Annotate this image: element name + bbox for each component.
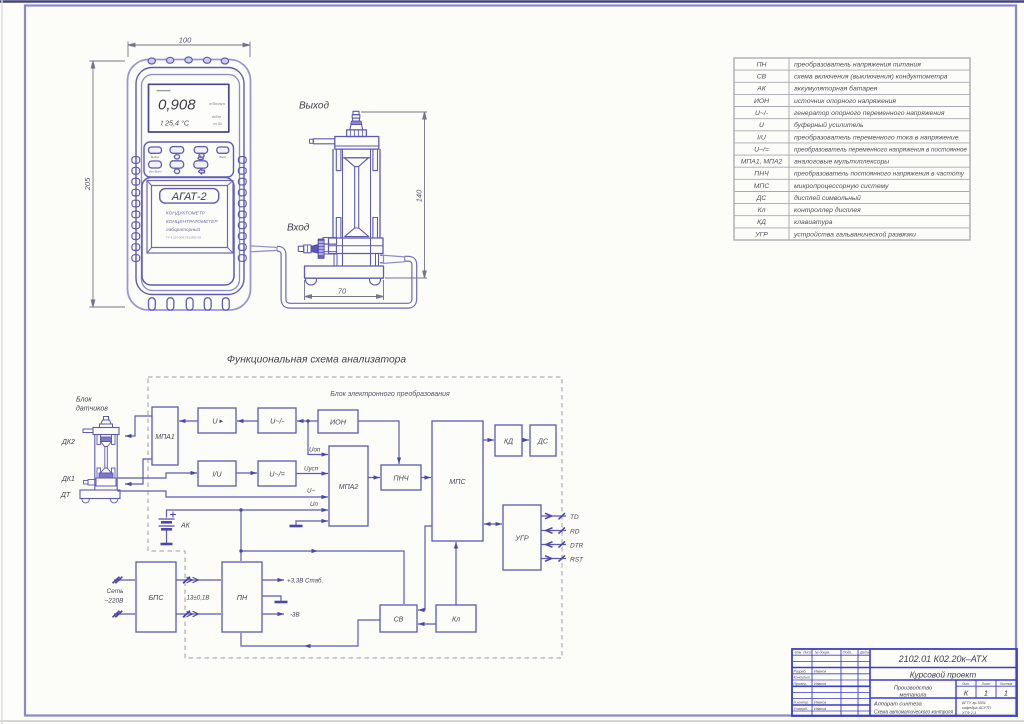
wire branch to СВ top xyxy=(241,551,404,604)
upper funnel xyxy=(343,157,371,159)
keypad buttons xyxy=(149,147,229,175)
block ДС xyxy=(530,425,556,456)
svg-text:УГР: УГР xyxy=(514,534,529,543)
svg-text:БПС: БПС xyxy=(148,593,164,602)
svg-text:+3,3В Стаб.: +3,3В Стаб. xyxy=(287,578,323,585)
wire МПС to КД xyxy=(483,439,494,441)
svg-text:ИОН: ИОН xyxy=(330,418,347,427)
svg-text:Н.контр.: Н.контр. xyxy=(794,701,809,705)
svg-text:Дата: Дата xyxy=(859,651,869,655)
top collar xyxy=(347,130,367,137)
svg-text:устройства гальванической разв: устройства гальванической развязки xyxy=(793,230,916,238)
svg-text:КД: КД xyxy=(757,219,766,226)
svg-text:ПН: ПН xyxy=(757,62,767,69)
svg-text:U~/=: U~/= xyxy=(269,470,285,479)
arrowheads xyxy=(125,419,529,648)
svg-text:МПА2: МПА2 xyxy=(339,484,359,491)
svg-text:аккумуляторная батарея: аккумуляторная батарея xyxy=(794,85,878,93)
svg-text:U: U xyxy=(212,417,218,426)
brand plate AГАТ-2 xyxy=(160,189,219,204)
connecting cable tube xyxy=(251,246,414,306)
wire МПА2 to ПНЧ xyxy=(368,477,380,479)
svg-text:дисплей символьный: дисплей символьный xyxy=(794,194,861,202)
block ПНЧ xyxy=(381,465,421,490)
svg-text:Консульт.: Консульт. xyxy=(794,676,811,680)
svg-text:КД: КД xyxy=(504,439,513,446)
svg-text:ПНЧ: ПНЧ xyxy=(754,171,769,178)
cable strain relief at device xyxy=(251,246,277,252)
svg-text:~220В: ~220В xyxy=(105,598,125,605)
wire БПС to ПН 1 xyxy=(176,579,221,581)
svg-text:Иванов: Иванов xyxy=(814,701,826,705)
svg-text:ВГТУ гр.5301: ВГТУ гр.5301 xyxy=(962,701,986,705)
block ПН xyxy=(222,562,262,632)
wire battery to ground xyxy=(166,530,168,543)
svg-text:U~: U~ xyxy=(307,488,315,495)
svg-text:ТУ 4.215-004-7512852-05: ТУ 4.215-004-7512852-05 xyxy=(166,235,201,239)
svg-text:Курсовой проект: Курсовой проект xyxy=(910,670,977,679)
svg-text:U~/-: U~/- xyxy=(755,110,769,117)
svg-text:ДС: ДС xyxy=(756,195,767,202)
sensor flow cell assembly xyxy=(298,111,383,285)
svg-text:СВ: СВ xyxy=(394,617,404,624)
wire Uп battery line to МПА2 xyxy=(167,510,329,518)
wire МПС to СВ xyxy=(418,526,432,610)
svg-text:УГР: УГР xyxy=(754,231,768,238)
svg-text:преобразователь напряжения пит: преобразователь напряжения питания xyxy=(794,61,921,69)
block МПС xyxy=(432,421,483,541)
lower cell block xyxy=(329,238,384,254)
center tube xyxy=(354,167,356,228)
conductometer device drawing xyxy=(128,57,251,310)
title block texts xyxy=(794,651,1013,716)
wire U to МПА1 xyxy=(179,420,198,422)
wire ПН -3В output xyxy=(262,613,284,615)
dimension 100 (device width) xyxy=(128,42,250,58)
block U~/= xyxy=(258,461,296,486)
right cable bracket xyxy=(380,255,384,263)
svg-text:Лист: Лист xyxy=(981,682,991,686)
left bracket arm xyxy=(313,139,335,144)
svg-text:Иванов: Иванов xyxy=(814,707,826,711)
wire U~/- to U xyxy=(237,420,258,422)
svg-text:МПС: МПС xyxy=(449,477,466,486)
svg-text:ПНЧ: ПНЧ xyxy=(393,474,408,483)
block МПА1 xyxy=(152,407,178,465)
upper side posts xyxy=(336,149,341,171)
svg-text:RD: RD xyxy=(570,529,580,536)
svg-text:Ввод: Ввод xyxy=(219,155,226,159)
svg-text:RST: RST xyxy=(570,557,584,564)
svg-text:-3В: -3В xyxy=(290,612,300,619)
svg-text:Выход: Выход xyxy=(299,101,329,112)
node junction СВ branch xyxy=(239,549,242,552)
svg-text:Вкл-Выкл: Вкл-Выкл xyxy=(149,170,162,174)
svg-text:буферный усилитель: буферный усилитель xyxy=(794,121,864,129)
wire СВ to ПН xyxy=(241,620,380,646)
wire mains input 1 xyxy=(114,579,135,581)
svg-text:клавиатура: клавиатура xyxy=(794,219,833,226)
wire УГР RD xyxy=(541,530,566,532)
svg-text:преобразователь переменного то: преобразователь переменного тока в напря… xyxy=(794,133,959,141)
svg-text:m.St: m.St xyxy=(213,121,222,126)
svg-text:U~/-: U~/- xyxy=(270,417,284,426)
side grip bumps right xyxy=(238,157,246,262)
wire УГР DTR xyxy=(541,544,566,546)
svg-text:U~/=: U~/= xyxy=(754,146,769,153)
svg-text:МПС: МПС xyxy=(754,183,770,190)
title block (основная надпись) xyxy=(792,649,1017,716)
svg-text:СВ: СВ xyxy=(757,74,767,81)
svg-text:микропроцессорную систему: микропроцессорную систему xyxy=(794,183,889,190)
side grip bumps left xyxy=(132,157,140,262)
svg-text:mSm/sm: mSm/sm xyxy=(209,101,225,106)
svg-text:№ докум.: № докум. xyxy=(815,651,830,655)
svg-text:100: 100 xyxy=(179,36,192,45)
block УГР xyxy=(503,505,541,570)
svg-text:Аппарат синтеза: Аппарат синтеза xyxy=(873,702,922,708)
svg-text:АК: АК xyxy=(180,523,191,530)
svg-text:Выбор: Выбор xyxy=(151,155,160,159)
svg-text:источник опорного напряжения: источник опорного напряжения xyxy=(794,98,896,105)
svg-text:I/U: I/U xyxy=(212,470,222,479)
svg-text:ДС: ДС xyxy=(537,439,549,446)
svg-text:Провер.: Провер. xyxy=(794,682,807,686)
wire КД to ДС xyxy=(522,439,529,441)
block Кл xyxy=(436,605,476,632)
top flange plate xyxy=(335,137,379,150)
wire Кл to МПС xyxy=(455,542,457,605)
svg-text:КОНДУКТОМЕТР: КОНДУКТОМЕТР xyxy=(166,211,206,217)
svg-text:Uоп: Uоп xyxy=(309,447,321,454)
svg-text:Подп.: Подп. xyxy=(843,651,852,655)
svg-text:0,908: 0,908 xyxy=(158,97,196,114)
block БПС xyxy=(136,562,176,632)
wire Uп junction down to ПН xyxy=(240,510,242,561)
svg-text:К: К xyxy=(964,689,969,698)
ground for battery xyxy=(161,543,173,546)
battery АК xyxy=(159,512,177,530)
device outer body xyxy=(128,60,251,311)
wire МПА1 to ДК2 xyxy=(125,416,152,436)
wire МПА1 to ДК1 xyxy=(125,459,152,484)
block МПА2 xyxy=(329,446,368,526)
svg-text:датчиков: датчиков xyxy=(76,405,108,413)
svg-text:МПА1: МПА1 xyxy=(155,434,175,441)
inlet fitting body xyxy=(323,238,337,245)
svg-text:70: 70 xyxy=(338,287,347,296)
node junction on ИОН output xyxy=(306,419,309,422)
lower funnel xyxy=(345,228,369,237)
svg-text:кафедра АСУТП: кафедра АСУТП xyxy=(962,706,991,710)
svg-text:МПА1, МПА2: МПА1, МПА2 xyxy=(741,159,783,166)
wire ground stub to МПА2 xyxy=(296,521,328,525)
svg-text:ДТ: ДТ xyxy=(60,492,71,499)
wire УГР TD xyxy=(541,515,566,517)
svg-text:DTR: DTR xyxy=(570,543,584,550)
svg-text:КОНЦЕНТРАТОМЕТЕР: КОНЦЕНТРАТОМЕТЕР xyxy=(166,219,218,225)
inlet hose barb xyxy=(304,245,311,253)
svg-text:АК: АК xyxy=(756,86,767,93)
dimension 70 (base width) xyxy=(305,280,384,300)
svg-text:ДК2: ДК2 xyxy=(61,439,75,446)
outer frame verticals xyxy=(332,149,334,238)
svg-text:Функциональная схема анализато: Функциональная схема анализатора xyxy=(227,355,407,366)
lower side posts xyxy=(336,218,341,239)
svg-text:метанола: метанола xyxy=(900,693,927,699)
wire mains input 2 xyxy=(114,613,135,615)
svg-text:Листов: Листов xyxy=(999,682,1013,686)
svg-text:U: U xyxy=(759,122,764,129)
bevel frame xyxy=(147,181,233,254)
dashed boundary: Блок электронного преобразования xyxy=(148,377,562,658)
svg-text:Утверд.: Утверд. xyxy=(794,707,808,711)
svg-text:Кл: Кл xyxy=(758,207,766,214)
double chevron arrows xyxy=(113,513,566,617)
block КД xyxy=(495,425,522,456)
wire sensor to I/U xyxy=(117,473,197,478)
base plate xyxy=(305,266,384,278)
lower label panel xyxy=(142,178,234,286)
svg-text:Uп: Uп xyxy=(310,501,318,508)
svg-text:ДК1: ДК1 xyxy=(61,476,75,483)
block U~/- (reference AC generator) xyxy=(258,408,296,433)
bottom slots xyxy=(149,298,230,310)
svg-text:АГАТ-2: АГАТ-2 xyxy=(171,191,207,203)
wire МПС to УГР bidirectional xyxy=(484,523,502,525)
svg-text:ХТФ 2-1: ХТФ 2-1 xyxy=(961,711,976,715)
svg-text:аналоговые мультиплексоры: аналоговые мультиплексоры xyxy=(794,159,889,166)
dimension 205 (device height) xyxy=(90,61,126,307)
svg-text:t 25,4 °C: t 25,4 °C xyxy=(161,119,190,128)
svg-text:Иванов: Иванов xyxy=(814,682,826,686)
svg-text:Кл: Кл xyxy=(452,617,460,624)
svg-text:схема включения (выключения) к: схема включения (выключения) кондуктомет… xyxy=(794,73,948,81)
svg-text:140: 140 xyxy=(415,189,424,202)
svg-text:преобразователь постоянного на: преобразователь постоянного напряжения в… xyxy=(794,170,965,178)
svg-text:ПН: ПН xyxy=(237,593,248,602)
wire Uоп branch to МПА2 xyxy=(308,421,328,455)
wire U~/= (Uусп) to МПА2 xyxy=(296,473,328,475)
ground at ПН output xyxy=(275,601,288,604)
wire I/U to U~/= xyxy=(236,472,257,474)
pedestal xyxy=(343,254,371,267)
wire БПС to ПН 2 xyxy=(176,613,221,615)
svg-text:I/U: I/U xyxy=(757,134,766,141)
svg-text:2102.01 К02.20к–АТХ: 2102.01 К02.20к–АТХ xyxy=(898,654,989,664)
svg-text:mSm: mSm xyxy=(212,114,222,119)
wire ПН +3,3В output xyxy=(262,579,284,581)
svg-text:1: 1 xyxy=(1004,689,1008,698)
top hose barb xyxy=(353,111,359,114)
sensor block icon xyxy=(80,417,120,503)
svg-text:Лит.: Лит. xyxy=(961,682,970,686)
block I/U xyxy=(198,461,236,486)
wire ПН ground stub xyxy=(262,596,281,601)
svg-text:Схема автоматического контроля: Схема автоматического контроля xyxy=(874,710,953,716)
device inner panel outline xyxy=(142,75,240,291)
ground at МПА2 input xyxy=(290,525,303,528)
svg-text:Вход: Вход xyxy=(287,223,310,234)
LCD display xyxy=(149,84,229,132)
svg-text:13±0,1В: 13±0,1В xyxy=(186,595,209,602)
svg-text:Блок: Блок xyxy=(76,397,92,404)
svg-text:лабораторный: лабораторный xyxy=(165,226,201,233)
svg-text:преобразователь переменного на: преобразователь переменного напряжения в… xyxy=(794,145,967,153)
svg-text:Блок электронного преобразован: Блок электронного преобразования xyxy=(330,390,450,398)
inlet cone xyxy=(311,245,318,254)
top vent ovals xyxy=(148,57,229,64)
inner frame verticals xyxy=(342,149,344,238)
block СВ xyxy=(380,605,417,632)
svg-text:Производство: Производство xyxy=(894,686,932,692)
feet xyxy=(306,278,317,285)
wire ДТ (U~) to МПА2 xyxy=(117,491,328,497)
wire ИОН to U~/- xyxy=(297,420,318,422)
node junction Uп/ПН xyxy=(239,508,242,511)
svg-text:1: 1 xyxy=(984,689,988,698)
svg-text:Иванов: Иванов xyxy=(814,669,826,673)
svg-text:генератор опорного переменного: генератор опорного переменного напряжени… xyxy=(794,110,945,117)
wire УГР RST xyxy=(541,558,566,560)
block U (buffer amplifier) xyxy=(198,408,236,433)
dimension 140 (sensor height) xyxy=(361,112,427,278)
block ИОН xyxy=(318,410,358,433)
wire Кл to СВ xyxy=(418,623,436,625)
wire ПНЧ to МПС xyxy=(421,477,431,479)
inlet knurled nut xyxy=(318,239,324,258)
svg-text:ИОН: ИОН xyxy=(754,98,769,105)
svg-text:Uусп: Uусп xyxy=(304,466,319,473)
svg-text:TD: TD xyxy=(570,514,579,521)
svg-text:Изм. Лист: Изм. Лист xyxy=(795,651,812,655)
svg-text:205: 205 xyxy=(83,177,92,191)
keypad panel xyxy=(144,142,234,177)
svg-text:контроллер дисплея: контроллер дисплея xyxy=(794,206,861,214)
device middle outline xyxy=(136,68,244,295)
svg-text:Разраб.: Разраб. xyxy=(794,669,807,673)
abbreviation table xyxy=(734,58,970,240)
wire ИОН to ПНЧ xyxy=(358,421,399,464)
svg-text:Сеть: Сеть xyxy=(106,588,124,595)
